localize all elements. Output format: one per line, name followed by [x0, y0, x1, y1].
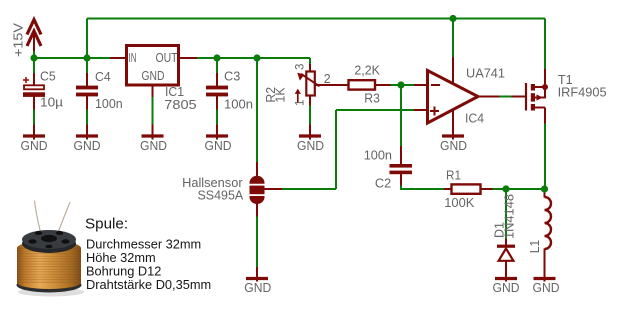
- capacitor C4: [76, 86, 98, 97]
- wire pin lead R1 right: [482, 188, 493, 190]
- wire C3 top: [216, 58, 218, 74]
- voltage regulator IC1 7805: [127, 46, 179, 86]
- ground C4: [76, 125, 98, 140]
- node junction dots: [30, 15, 548, 193]
- wire pin lead L1 bottom to gnd: [544, 249, 546, 282]
- wire pot pin1 to gnd: [309, 105, 311, 125]
- ground C5: [23, 125, 45, 140]
- wire pin lead C5 upper: [33, 73, 35, 87]
- wire top +15V rail: [87, 18, 545, 20]
- wire pin lead D1 anode to gnd: [505, 260, 507, 282]
- coil photo: bottom flange: [17, 278, 82, 293]
- svg-text:R1: R1: [446, 167, 461, 182]
- svg-text:100n: 100n: [364, 147, 392, 162]
- op-amp plus input mark: [430, 107, 439, 116]
- wire hall bottom to gnd: [256, 216, 258, 268]
- svg-text:C4: C4: [95, 69, 111, 84]
- svg-text:IN: IN: [129, 51, 137, 65]
- wire pin lead pot pin3: [309, 64, 311, 72]
- wire pin lead opamp plus input: [414, 109, 428, 111]
- node hall feed tap: [253, 54, 260, 61]
- wire pin lead C2 top: [400, 146, 402, 165]
- coil photo: top flange rim: [22, 234, 76, 253]
- node C4 / riser: [83, 54, 90, 61]
- svg-text:GND: GND: [140, 138, 167, 153]
- node L1 / T1 drain: [541, 185, 548, 192]
- wire riser x87 to top rail: [86, 19, 88, 59]
- wire pot pin3 drop: [309, 58, 311, 65]
- wire pin lead C4 lower: [86, 96, 88, 110]
- svg-text:+15V: +15V: [10, 23, 25, 57]
- wire pin lead pot pin2 to R3: [314, 84, 349, 86]
- svg-text:IC4: IC4: [465, 110, 484, 125]
- svg-text:2,2K: 2,2K: [354, 63, 380, 78]
- node opamp V+ tap: [449, 15, 456, 22]
- svg-text:L1: L1: [527, 240, 542, 254]
- svg-text:7805: 7805: [164, 97, 196, 112]
- wire opamp output: [499, 96, 512, 98]
- svg-text:Drahtstärke D0,35mm: Drahtstärke D0,35mm: [86, 277, 211, 292]
- wire pin lead pot pin1: [309, 96, 311, 106]
- svg-text:C2: C2: [375, 176, 391, 191]
- wire opamp plus input: [336, 109, 415, 111]
- wire hall sensor feed: [256, 58, 258, 163]
- wire pin lead 7805 IN: [110, 57, 126, 59]
- wire IC1 gnd pin to gnd: [152, 97, 154, 126]
- R2 wiper arrow: [297, 73, 319, 87]
- wire pin lead hall gnd stub: [256, 267, 258, 282]
- diode D1 1N4148: [497, 245, 515, 261]
- svg-text:10µ: 10µ: [40, 94, 64, 109]
- wire pin lead opamp V- to gnd: [452, 110, 454, 140]
- wire pin lead C5 lower: [33, 96, 35, 110]
- wire C2 bottom corner to R1: [401, 185, 445, 189]
- wire pin lead hall top: [256, 162, 258, 177]
- wire R1 right to L1 junction: [492, 188, 545, 190]
- coil photo: bobbin holes: [28, 231, 69, 248]
- svg-text:GND: GND: [533, 280, 560, 295]
- C5 polarity plus: [23, 77, 29, 83]
- coil photo: lead-out wires: [35, 201, 71, 235]
- resistor R1: [452, 184, 481, 193]
- svg-text:100n: 100n: [224, 97, 253, 112]
- wire pin lead R1 left: [444, 188, 451, 190]
- node C3 tap: [213, 54, 220, 61]
- wire C4 bottom to gnd: [86, 109, 88, 125]
- svg-text:IRF4905: IRF4905: [558, 84, 607, 99]
- wire rail drop to T1: [544, 19, 546, 70]
- wire pin lead R3 right: [376, 84, 391, 86]
- svg-text:GND: GND: [440, 138, 467, 153]
- wire R3 to opamp minus node: [390, 84, 415, 86]
- wire hall output to riser: [282, 188, 337, 190]
- svg-text:1: 1: [295, 100, 307, 106]
- svg-text:1K: 1K: [272, 87, 287, 102]
- wire D1 drop: [505, 189, 507, 240]
- wire pin lead T1 bottom: [544, 108, 546, 124]
- ground D1: [495, 277, 517, 280]
- wire pin lead opamp minus input: [414, 84, 428, 86]
- svg-text:100n: 100n: [95, 96, 123, 111]
- svg-text:SS495A: SS495A: [198, 187, 244, 202]
- wire pin lead C4 upper: [86, 73, 88, 87]
- wire pin lead opamp output: [478, 96, 500, 98]
- wire pin lead hall output: [264, 188, 282, 190]
- coil photo: shadow: [18, 288, 84, 297]
- wire 7805 OUT rail: [196, 57, 310, 59]
- svg-text:GND: GND: [205, 138, 232, 153]
- svg-text:R3: R3: [364, 90, 380, 105]
- node minus input / C2: [397, 81, 404, 88]
- node T1 source/body: [542, 84, 548, 90]
- resistor R3: [349, 80, 376, 89]
- op-amp minus input mark: [431, 84, 440, 86]
- svg-text:GND: GND: [493, 280, 520, 295]
- ground C3: [206, 125, 228, 140]
- svg-text:GND: GND: [21, 138, 48, 153]
- svg-text:GND: GND: [297, 138, 324, 153]
- svg-text:GND: GND: [142, 69, 165, 83]
- svg-text:Spule:: Spule:: [85, 215, 128, 232]
- svg-text:C3: C3: [224, 69, 240, 84]
- wire pin lead opamp V+: [452, 57, 454, 85]
- node R1 / D1: [502, 185, 509, 192]
- +15V supply arrow: [27, 20, 41, 51]
- wire T1 bottom to junction: [544, 123, 546, 189]
- ground L1: [534, 277, 556, 280]
- svg-text:OUT: OUT: [156, 51, 178, 65]
- wire pin lead D1 cathode: [505, 239, 507, 246]
- wire C3 bottom to gnd: [216, 109, 218, 125]
- coil photo: copper winding body: [17, 276, 81, 289]
- inductor L1: [545, 197, 552, 249]
- op-amp IC4 UA741: [428, 71, 479, 124]
- wire pin lead T1 top: [544, 69, 546, 87]
- capacitor C2: [390, 164, 413, 174]
- hall sensor SS495A symbol: [250, 176, 265, 204]
- wire: green net segments: [34, 19, 545, 268]
- svg-text:GND: GND: [244, 280, 271, 295]
- ground hall sensor: [246, 277, 268, 280]
- wire: dark red pin leads: [34, 57, 545, 282]
- wire pin lead 7805 OUT: [180, 57, 198, 59]
- svg-text:UA741: UA741: [466, 65, 505, 80]
- svg-text:100K: 100K: [444, 195, 475, 210]
- wire +15V arrow to rail junction: [33, 50, 35, 59]
- wire opamp V+ drop: [452, 19, 454, 58]
- svg-text:3: 3: [295, 64, 307, 70]
- potentiometer R2 body: [306, 72, 315, 96]
- ground IC4: [442, 134, 464, 137]
- wire pin lead T1 gate: [512, 96, 527, 98]
- capacitor C3: [206, 86, 228, 97]
- wire pin lead L1 top: [544, 189, 546, 198]
- wire pin lead IC1 GND: [152, 86, 154, 97]
- capacitor C5: [23, 85, 45, 97]
- wire pin lead C3 upper: [216, 73, 218, 87]
- svg-text:1N4148: 1N4148: [502, 194, 517, 239]
- coil photo: top flange face: [22, 230, 76, 249]
- svg-text:2: 2: [324, 72, 331, 86]
- wire C4 top: [86, 58, 88, 74]
- node +15V / C5: [30, 54, 37, 61]
- wire rail from +15V to 7805 IN: [34, 57, 111, 59]
- svg-text:GND: GND: [74, 138, 101, 153]
- wire C5 top: [33, 58, 35, 74]
- wire plus-input riser: [335, 110, 337, 189]
- MOSFET T1 IRF4905: [526, 83, 545, 111]
- wire C5 bottom to gnd: [33, 109, 35, 125]
- R2 adjustment arrow: [295, 89, 301, 103]
- wire C2 riser from minus node: [400, 85, 402, 147]
- wire pin lead C2 bottom: [400, 174, 402, 186]
- ground IC1: [142, 125, 164, 140]
- ground R2: [299, 125, 321, 140]
- wire pin lead C3 lower: [216, 96, 218, 110]
- wire pin lead hall bottom: [256, 203, 258, 217]
- svg-text:C5: C5: [40, 69, 56, 84]
